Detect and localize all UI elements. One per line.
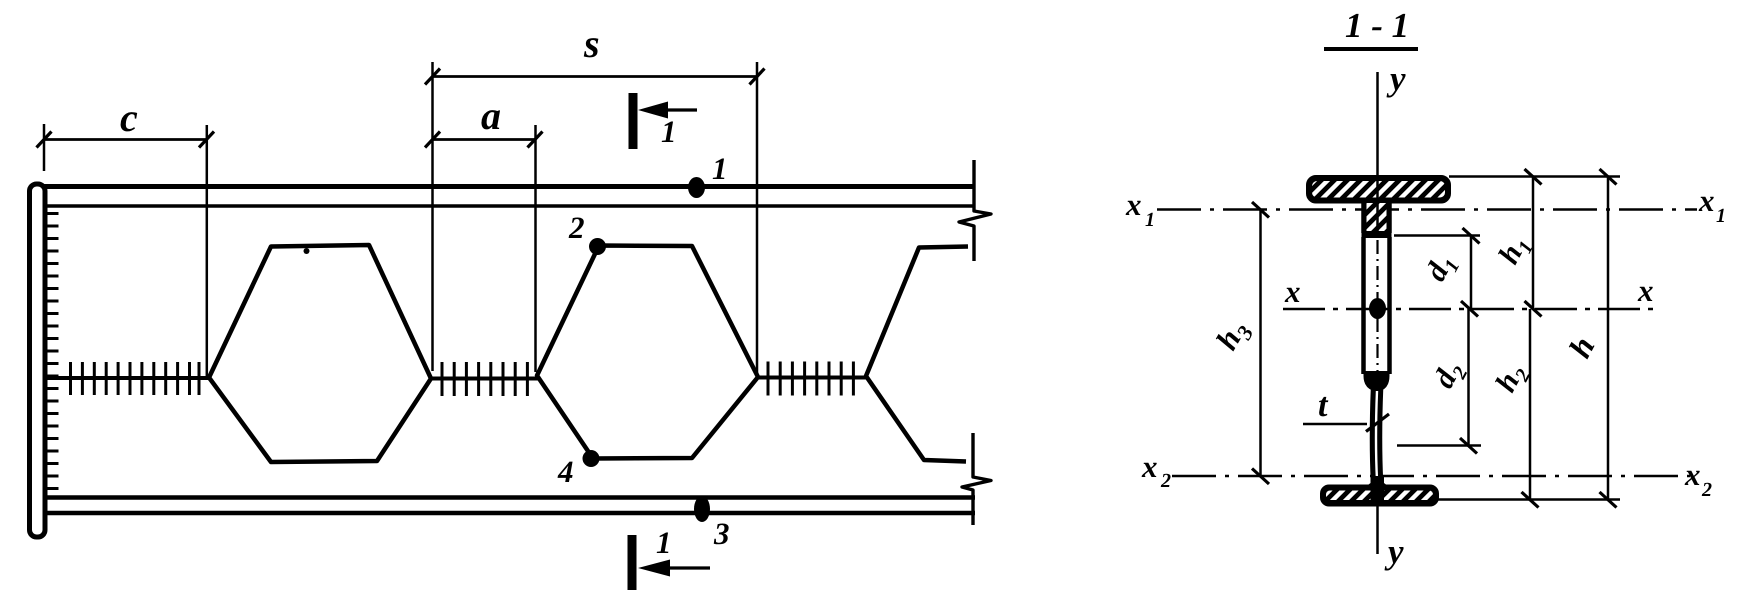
point 3 marker — [694, 496, 710, 522]
y axis lower segment — [1376, 504, 1379, 554]
dimension s tick left — [425, 69, 440, 85]
svg-text:a: a — [481, 93, 501, 138]
svg-text:4: 4 — [557, 454, 574, 489]
svg-text:x: x — [1125, 187, 1142, 222]
x2 centreline — [1172, 475, 1690, 478]
dimension c tick right — [199, 132, 214, 148]
svg-text:x: x — [1698, 183, 1715, 218]
dimension s tick right — [750, 69, 765, 85]
top flange — [1308, 177, 1449, 202]
thin lower web — [1376, 389, 1377, 482]
d1 tick top — [1463, 228, 1480, 244]
svg-text:1: 1 — [1716, 205, 1726, 227]
svg-text:1: 1 — [656, 525, 672, 560]
web foot into bottom flange — [1362, 476, 1393, 501]
point 4 marker — [583, 450, 600, 467]
weld hatch ticks segment 1 — [71, 362, 200, 395]
y axis through top flange — [1376, 177, 1379, 232]
h tick top — [1600, 169, 1617, 185]
svg-text:2: 2 — [568, 210, 585, 245]
middle web outline — [1364, 237, 1390, 374]
web lower taper — [1364, 371, 1390, 392]
svg-text:x: x — [1637, 273, 1654, 308]
dimension c extension line right — [206, 125, 209, 376]
dimension d2 line — [1467, 309, 1470, 446]
d2 tick bottom — [1460, 438, 1477, 454]
dimension s line — [433, 75, 758, 78]
svg-text:x: x — [1684, 457, 1701, 492]
hexagonal opening 3 (cut by break) — [866, 247, 968, 462]
web mid-line segment 2 — [430, 377, 538, 381]
dimension h line — [1607, 177, 1610, 500]
section mark 1 bottom: arrow — [664, 566, 710, 569]
svg-text:2: 2 — [1160, 470, 1171, 492]
t leader tick across web — [1366, 414, 1389, 432]
h1 tick top — [1525, 169, 1542, 185]
speck on hexagon 1 top edge — [304, 248, 310, 254]
upper web stub hatched — [1364, 202, 1390, 234]
dimension s/a shared extension line left — [431, 62, 434, 371]
web centroid marker on x axis — [1369, 298, 1386, 319]
point 1 marker — [688, 177, 705, 198]
svg-text:3: 3 — [713, 516, 730, 551]
dimension a tick right — [528, 132, 543, 148]
dimension a line — [433, 138, 536, 141]
bottom flange — [1322, 487, 1437, 505]
section mark 1 top: cutting plane bar — [629, 93, 638, 149]
svg-text:2: 2 — [1701, 479, 1712, 501]
dimension h1 line — [1532, 177, 1535, 310]
top chord bottom line — [45, 204, 975, 208]
svg-text:1: 1 — [1145, 209, 1155, 231]
weld seam bar — [1362, 232, 1392, 239]
dimension h2 line — [1529, 309, 1532, 500]
weld hatch ticks segment 2 — [442, 362, 527, 396]
section mark 1 top: arrow — [662, 108, 697, 111]
svg-text:x: x — [1284, 274, 1301, 309]
d2 bottom connector — [1397, 444, 1481, 447]
x centreline — [1283, 308, 1653, 311]
hx tick bottom — [1252, 469, 1269, 485]
bottom connector for h2/h — [1437, 498, 1620, 501]
dimension a tick left — [425, 132, 440, 148]
hexagonal opening 2 — [537, 246, 758, 459]
x1 centreline — [1157, 208, 1697, 211]
dimension d1 line — [1470, 236, 1473, 310]
dimension c tick left — [37, 132, 52, 148]
h tick bottom — [1600, 492, 1617, 508]
h1/h2 tick middle — [1525, 301, 1542, 317]
end plate hatch ticks — [44, 214, 59, 489]
bottom chord top line — [45, 495, 975, 500]
dimension a extension line right — [534, 125, 537, 372]
t leader line — [1303, 423, 1367, 426]
d1 top connector — [1394, 234, 1480, 237]
weld hatch ticks segment 3 — [768, 362, 853, 396]
web mid-line segment 1 — [43, 376, 210, 380]
section mark 1 bottom: cutting plane bar — [628, 535, 637, 590]
svg-text:1: 1 — [712, 151, 728, 186]
svg-text:t: t — [1318, 387, 1329, 424]
svg-text:s: s — [583, 21, 600, 66]
section title underline — [1324, 47, 1418, 51]
dimension s extension line right — [756, 62, 759, 374]
h2 tick bottom — [1522, 492, 1539, 508]
hexagonal opening 1 — [209, 245, 431, 462]
top connector for h1/h — [1449, 175, 1620, 178]
web mid-line segment 3 — [757, 376, 866, 380]
svg-text:c: c — [120, 95, 138, 140]
y axis upper segment — [1376, 72, 1379, 176]
hx tick top — [1252, 202, 1269, 218]
svg-text:1: 1 — [661, 114, 677, 149]
left end plate — [30, 184, 46, 537]
thin lower web white core — [1376, 391, 1377, 480]
top chord top line — [33, 184, 975, 189]
break line bottom right — [962, 433, 991, 525]
dimension c extension line left — [43, 124, 46, 171]
svg-text:1 - 1: 1 - 1 — [1345, 6, 1409, 45]
point 2 marker — [589, 238, 606, 255]
dimension c line — [44, 138, 207, 141]
break line top right — [959, 160, 991, 261]
bottom chord bottom line — [42, 511, 975, 516]
svg-text:x: x — [1141, 449, 1158, 484]
dimension hx line — [1259, 210, 1262, 477]
d1/d2 tick middle — [1461, 301, 1478, 317]
y axis dash-dot inside web — [1376, 240, 1378, 372]
